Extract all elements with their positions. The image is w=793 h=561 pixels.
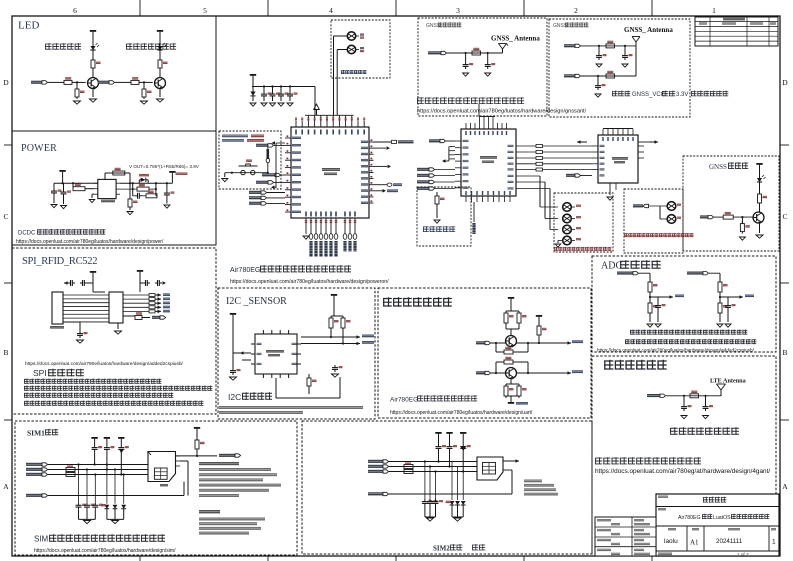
svg-text:https://docs.openluat.com/air7: https://docs.openluat.com/air780eg/luato… xyxy=(417,109,587,115)
svg-text:Air780EG: Air780EG xyxy=(390,397,418,404)
svg-text:https://docs.openluat.com/air7: https://docs.openluat.com/air780eg/luato… xyxy=(230,279,389,285)
svg-text:A: A xyxy=(782,482,788,491)
svg-text:Air780EG: Air780EG xyxy=(678,515,701,521)
svg-text:GNSS_ Antenna: GNSS_ Antenna xyxy=(624,26,673,34)
svg-text:LuatOS: LuatOS xyxy=(713,515,731,521)
svg-text:https://docs.openluat.com/air7: https://docs.openluat.com/air780eg/luato… xyxy=(34,548,176,554)
svg-text:4: 4 xyxy=(329,6,333,15)
svg-text:https://docs.openluat.com/air7: https://docs.openluat.com/air780eg/at/ha… xyxy=(595,468,770,475)
svg-text:POWER: POWER xyxy=(21,143,57,154)
svg-text:6: 6 xyxy=(73,6,77,15)
svg-text:5: 5 xyxy=(203,6,207,15)
svg-text:V OUT=0.765*(1+R65/R66)= 3.9V: V OUT=0.765*(1+R65/R66)= 3.9V xyxy=(129,164,200,169)
svg-text:2: 2 xyxy=(574,6,578,15)
svg-text:SIM: SIM xyxy=(34,535,49,544)
svg-text:ADC: ADC xyxy=(601,261,622,272)
svg-text:C: C xyxy=(3,212,8,221)
svg-text:B: B xyxy=(3,348,8,357)
svg-text:I2C _SENSOR: I2C _SENSOR xyxy=(226,296,287,307)
svg-text:3: 3 xyxy=(456,6,460,15)
svg-text:https://docs.openluat.com/air7: https://docs.openluat.com/air780eg/luato… xyxy=(390,410,533,416)
svg-text:A1: A1 xyxy=(690,539,699,547)
svg-text:D: D xyxy=(782,78,788,87)
svg-text:https://docs.openluat.com/air7: https://docs.openluat.com/air780eg/luato… xyxy=(597,348,755,353)
svg-text:LTE Antenna: LTE Antenna xyxy=(710,378,746,385)
svg-text:1: 1 xyxy=(712,6,716,15)
svg-text:1 of 2: 1 of 2 xyxy=(737,552,749,557)
svg-text:D: D xyxy=(3,78,9,87)
svg-text:GNSS: GNSS xyxy=(709,163,727,171)
svg-text:C: C xyxy=(782,212,787,221)
svg-text:LED: LED xyxy=(18,20,39,32)
svg-text:Air780EG: Air780EG xyxy=(230,267,260,274)
svg-text:A: A xyxy=(3,482,9,491)
svg-text:SPI: SPI xyxy=(33,368,47,378)
svg-text:https://docs.openluat.com/air7: https://docs.openluat.com/air780eg/luato… xyxy=(16,239,164,245)
svg-text:https://docs.openluat.com/air7: https://docs.openluat.com/air780e/luatos… xyxy=(25,361,184,367)
svg-text:laolu: laolu xyxy=(664,538,678,545)
svg-text:DCDC: DCDC xyxy=(18,231,36,237)
svg-text:SPI_RFID_RC522: SPI_RFID_RC522 xyxy=(22,256,97,267)
svg-text:GNSS_ Antenna: GNSS_ Antenna xyxy=(491,35,540,43)
svg-text:3.3V: 3.3V xyxy=(676,92,688,98)
svg-text:I2C: I2C xyxy=(228,392,241,402)
svg-text:20241111: 20241111 xyxy=(716,538,743,545)
svg-text:SIM1: SIM1 xyxy=(27,429,45,438)
svg-text:GNSS_VCC: GNSS_VCC xyxy=(632,92,666,98)
svg-text:1: 1 xyxy=(772,539,776,546)
svg-text:B: B xyxy=(782,348,787,357)
svg-text:SIM2: SIM2 xyxy=(433,545,450,553)
